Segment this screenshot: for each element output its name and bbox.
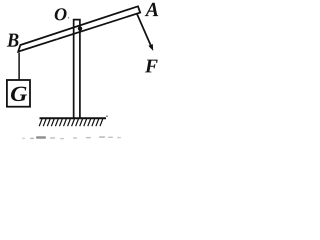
label O [55, 8, 67, 20]
faint cut-off print at bottom edge [22, 136, 121, 139]
label B [7, 34, 19, 47]
force arrow F at A [137, 14, 151, 46]
label G [11, 87, 27, 102]
pivot dot at O [78, 26, 82, 30]
string from B end to weight box [18, 53, 20, 81]
ground hatching [39, 119, 103, 126]
label F [145, 60, 158, 73]
weight box [7, 80, 30, 107]
label A [145, 3, 158, 16]
scan specks [56, 17, 108, 117]
lever beam from B to A [18, 6, 140, 51]
ground line [40, 117, 107, 119]
support post [74, 20, 80, 119]
